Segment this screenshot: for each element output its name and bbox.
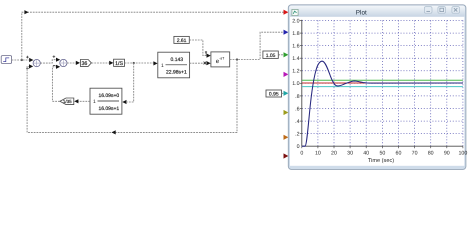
svg-text:1/35: 1/35 — [63, 99, 72, 104]
wire compensator to gain 1/35 — [74, 99, 90, 103]
step source block — [1, 56, 11, 64]
gain block 36 — [80, 60, 91, 67]
green reference line 1.05 — [302, 79, 463, 81]
red reference line 1.0 — [302, 82, 463, 84]
step response curve — [302, 61, 463, 146]
wire step to sum S1 — [12, 58, 34, 62]
wire delay output to scope input 2 — [230, 32, 284, 60]
wire 2.61 to delay t input — [189, 40, 210, 58]
wire branch up to scope (node) — [22, 10, 284, 60]
svg-text:1.8: 1.8 — [292, 31, 299, 37]
svg-text:100: 100 — [458, 151, 467, 157]
svg-text:30: 30 — [347, 151, 353, 157]
scope input port 4 (magenta) — [284, 72, 289, 77]
svg-text:2.0: 2.0 — [292, 18, 299, 24]
svg-text:2.61: 2.61 — [177, 38, 187, 44]
sum S1 — [26, 56, 40, 69]
svg-text:60: 60 — [396, 151, 402, 157]
svg-text:16.09s+0: 16.09s+0 — [98, 93, 119, 99]
svg-text:1: 1 — [161, 63, 164, 69]
integrator block 1/S — [114, 59, 125, 67]
window button close — [452, 7, 460, 14]
svg-text:90: 90 — [444, 151, 450, 157]
svg-text:20: 20 — [331, 151, 337, 157]
constant block 0.95 — [266, 90, 283, 98]
constant block 1.05 — [263, 51, 283, 59]
svg-text:1/S: 1/S — [115, 61, 123, 67]
scope input port 8 (dark red) — [284, 153, 289, 158]
svg-text:0: 0 — [300, 151, 303, 157]
window button minimize — [424, 7, 432, 14]
cyan reference line 0.95 — [302, 86, 463, 88]
svg-text:50: 50 — [379, 151, 385, 157]
scope input port 7 (orange) — [284, 135, 289, 140]
sum S2 — [53, 55, 67, 66]
plot gridlines — [302, 21, 463, 147]
scope input port 2 (blue) — [284, 30, 289, 35]
svg-text:1.0: 1.0 — [292, 81, 299, 87]
svg-text:Time (sec): Time (sec) — [368, 157, 394, 164]
svg-text:0.95: 0.95 — [269, 92, 279, 98]
wire sum S1 to sum S2 — [40, 58, 60, 64]
plant transfer function 0.143/(22.98s+1) — [158, 52, 190, 78]
svg-text:36: 36 — [81, 61, 87, 67]
svg-text:10: 10 — [315, 151, 321, 157]
svg-text:1.05: 1.05 — [266, 53, 276, 59]
scope input port 6 (olive) — [284, 110, 289, 115]
wire plant TF to delay x input — [190, 61, 211, 65]
svg-text:.8: .8 — [295, 94, 299, 100]
svg-text:80: 80 — [428, 151, 434, 157]
svg-text:.2: .2 — [295, 132, 299, 138]
svg-text:-sT: -sT — [219, 57, 225, 61]
wire sum S2 to gain 36 — [67, 61, 80, 65]
time delay block e^-sT — [211, 52, 230, 67]
y axis labels — [292, 18, 299, 150]
compensator TF (16.09s+0)/(16.09s+1) — [90, 88, 122, 114]
scope window title "Plot" — [356, 9, 367, 16]
svg-text:40: 40 — [363, 151, 369, 157]
outer feedback wire — [27, 60, 237, 135]
svg-text:1: 1 — [93, 99, 96, 105]
svg-text:0.143: 0.143 — [171, 57, 184, 63]
gain block 1/35 — [60, 98, 74, 105]
constant block 2.61 — [174, 36, 189, 44]
svg-text:.6: .6 — [295, 106, 299, 112]
svg-text:0: 0 — [297, 144, 300, 150]
svg-text:Plot: Plot — [356, 9, 367, 16]
x axis title Time (sec) — [368, 157, 394, 164]
axis tick marks — [300, 21, 463, 149]
inner feedback branch wire — [122, 63, 133, 104]
wire 1/S to plant TF — [125, 61, 158, 65]
svg-text:16.09s+1: 16.09s+1 — [98, 106, 119, 112]
scope input port 1 (red) — [284, 10, 289, 15]
scope input port 5 (cyan) — [284, 91, 289, 96]
x axis labels — [300, 151, 467, 157]
scope window title icon — [292, 9, 298, 15]
scope window frame — [288, 5, 466, 170]
svg-text:.4: .4 — [295, 119, 299, 125]
svg-text:1.4: 1.4 — [292, 56, 299, 62]
wire gain 36 to integrator 1/S — [92, 61, 114, 65]
svg-text:70: 70 — [412, 151, 418, 157]
wire gain 1/35 to sum S2 — [52, 65, 60, 102]
svg-text:22.98s+1: 22.98s+1 — [166, 70, 187, 76]
svg-text:1.2: 1.2 — [292, 69, 299, 75]
window button maximize — [438, 7, 446, 14]
scope input port 3 (green) — [284, 52, 289, 57]
plot axes — [302, 20, 463, 146]
svg-text:1.6: 1.6 — [292, 44, 299, 50]
